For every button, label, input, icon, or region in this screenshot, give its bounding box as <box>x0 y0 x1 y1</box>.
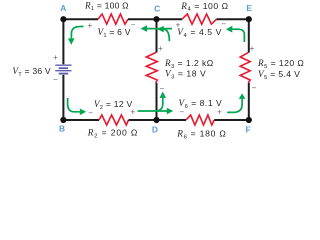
svg-text:+: + <box>217 107 222 116</box>
current arrow at C curved (left) <box>164 29 170 41</box>
svg-text:B: B <box>59 123 65 133</box>
resistor R1 <box>98 14 128 24</box>
node A <box>60 16 66 22</box>
svg-text:V4 = 4.5 V: V4 = 4.5 V <box>177 27 222 39</box>
resistor R5 <box>240 53 250 83</box>
svg-text:R5 = 120 Ω: R5 = 120 Ω <box>257 58 304 70</box>
svg-text:−: − <box>221 20 226 29</box>
svg-text:R4 = 100 Ω: R4 = 100 Ω <box>180 1 228 13</box>
svg-text:D: D <box>152 125 158 135</box>
svg-text:R2 = 200 Ω: R2 = 200 Ω <box>87 128 138 140</box>
svg-text:C: C <box>154 4 160 14</box>
svg-text:F: F <box>246 125 251 135</box>
current arrow at D straight (right) <box>138 110 167 112</box>
current arrow at D curved (up) <box>156 98 163 111</box>
svg-text:R6 = 180 Ω: R6 = 180 Ω <box>176 129 226 141</box>
resistor R3 <box>146 53 157 83</box>
resistor R4 <box>182 14 217 24</box>
svg-text:+: + <box>158 44 163 53</box>
svg-text:VT = 36 V: VT = 36 V <box>12 66 51 78</box>
svg-text:V2 = 12 V: V2 = 12 V <box>94 99 133 111</box>
svg-text:V6 = 8.1 V: V6 = 8.1 V <box>179 98 223 110</box>
wire R1 to C to R4 <box>128 18 182 20</box>
current arrow at A (down) <box>71 26 83 38</box>
wire left rail upper (A to battery) <box>62 19 64 64</box>
svg-text:+: + <box>176 21 181 30</box>
svg-text:R1 = 100 Ω: R1 = 100 Ω <box>84 0 129 12</box>
svg-text:V1 = 6 V: V1 = 6 V <box>98 27 131 39</box>
svg-text:V5 = 5.4 V: V5 = 5.4 V <box>258 69 300 81</box>
node C <box>153 16 159 22</box>
svg-text:−: − <box>131 21 136 30</box>
svg-text:−: − <box>179 108 184 117</box>
node B <box>60 117 66 123</box>
current arrow at C straight (left) <box>147 28 172 30</box>
svg-text:V3 = 18 V: V3 = 18 V <box>165 69 206 81</box>
wire right rail upper (E to R5) <box>248 19 250 52</box>
svg-text:−: − <box>159 84 164 93</box>
node D <box>153 117 159 123</box>
wire R2 to D to R6 <box>129 119 187 121</box>
battery VT <box>55 65 71 73</box>
wire bottom B to R2 <box>63 119 99 121</box>
current arrow at B (right) <box>68 98 80 112</box>
svg-text:−: − <box>53 75 58 84</box>
svg-text:+: + <box>87 21 92 30</box>
node F <box>246 117 252 123</box>
wire middle rail lower (R3 to D) <box>156 83 158 120</box>
wire left rail lower (battery to B) <box>62 75 64 120</box>
svg-text:+: + <box>130 108 135 117</box>
current arrow at E (left) <box>232 29 244 42</box>
svg-text:A: A <box>60 3 66 13</box>
svg-text:−: − <box>252 84 257 93</box>
svg-text:+: + <box>53 53 58 62</box>
wire right rail lower (R5 to F) <box>248 83 250 120</box>
wire top-left A to R1 <box>63 18 98 20</box>
wire R4 to E <box>217 18 249 20</box>
svg-text:E: E <box>246 3 252 13</box>
wire middle rail upper (C to R3) <box>156 19 158 52</box>
current arrow at F (up) <box>227 99 242 113</box>
node E <box>246 16 252 22</box>
resistor R6 <box>186 115 214 125</box>
resistor R2 <box>99 115 129 125</box>
svg-text:+: + <box>250 44 255 53</box>
svg-text:−: − <box>88 109 93 118</box>
wire R6 to F <box>214 119 249 121</box>
